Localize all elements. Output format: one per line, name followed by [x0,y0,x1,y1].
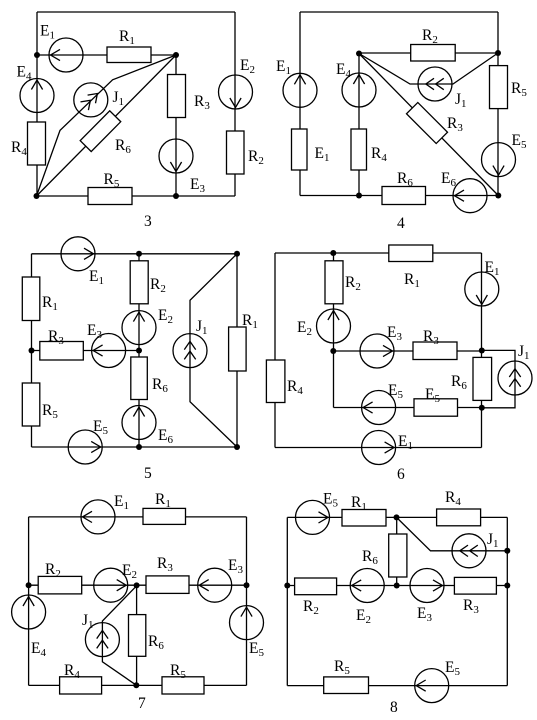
wire bottom c5 [32,446,238,448]
resistor R5 [490,66,508,109]
source E3 [198,568,232,602]
wire J1 loop c6 [482,350,516,407]
wire R6 branch c3 [37,55,177,196]
resistor R6 [131,357,148,400]
source E2 [94,568,128,602]
wire top c7 [29,516,247,518]
wire R6 column c8 [396,517,398,585]
wire R3 row c5 [32,350,140,352]
resistor R1 right [229,327,247,371]
wire right rail c4 [497,12,499,196]
wire bottom c7 [29,684,247,686]
wire left rail c8 [286,517,288,685]
wire right rail c7 [246,517,248,686]
wire J1 branch c3 [37,55,177,196]
resistor R5 [324,677,369,694]
source E3 [159,139,193,173]
wire R2 row c4 [359,52,498,54]
wire bottom c3 [37,195,236,197]
resistor R6 [382,187,426,205]
resistor R6 [129,615,146,657]
wire J1 branch c5 [190,254,237,447]
current source J1 [452,534,486,568]
source E5 [482,143,516,177]
node bottom-mid c3 [173,193,179,199]
source E1 [61,237,95,271]
current source J1 [85,623,119,657]
wire bottom c6 [275,447,482,449]
source E1 top [465,272,499,306]
wire J1 branch c7 [102,586,136,685]
svg-text:7: 7 [138,695,146,712]
wire left rail c7 [28,517,30,686]
node bottom-mid c4 [356,193,362,199]
resistor R4 [28,122,46,165]
wire left rail c5 [31,254,33,447]
node top-mid c5 [136,251,142,257]
wire top c4 [300,11,498,13]
resistor R3 [413,342,457,360]
source E5 [68,430,102,464]
wire E1-R1 row c3 [37,54,176,56]
wire J1 branch c8 [397,517,508,550]
wire right rail c8 [506,517,508,685]
wire R6 column c7 [136,585,138,685]
source E6 [453,179,487,213]
wire middle row c8 [287,585,507,587]
resistor R2 [38,576,81,594]
wire middle row c7 [29,584,247,586]
node mid c5 [136,348,142,354]
resistor R5 [22,383,40,426]
wire bottom c4 [300,195,498,197]
resistor R1 [342,510,386,527]
resistor R6 [80,111,121,152]
wire left rail c4 [299,12,301,196]
source E4 [12,595,46,629]
node right c8 [504,583,510,589]
source E5 bottom [415,669,449,703]
svg-text:8: 8 [390,699,398,716]
node bottom-right c5 [234,444,240,450]
node top-right c5 [234,251,240,257]
source E1 [49,38,83,72]
svg-text:6: 6 [397,466,405,483]
node right-mid c6 [479,348,485,354]
resistor R4 [266,360,285,403]
resistor R3 [454,577,496,594]
node mid-top c4 [356,51,362,57]
current source J1 [74,83,108,117]
current source J1 [418,67,452,101]
resistor R4 [351,129,367,170]
node bottom-mid c5 [136,444,142,450]
resistor E1 box [292,129,308,170]
resistor R2 [325,261,343,304]
wire middle column c5 [138,254,140,447]
wire top c5 [32,253,238,255]
source E3 [92,334,126,368]
current source J1 [173,334,207,368]
wire J1 branch c4 [359,53,498,84]
source E2 [350,569,384,603]
resistor R2 [227,131,245,174]
source E5 top [296,500,330,534]
wire left rail c6 [274,253,276,448]
svg-text:4: 4 [397,215,405,232]
wire right rail c3 [234,12,236,196]
wire middle column c6 [333,253,335,408]
wire top c8 [287,516,507,518]
node top c6 [330,250,336,256]
source E1 [283,73,317,107]
node left c8 [284,583,290,589]
resistor R5 [162,677,204,694]
resistor R3 [406,102,447,143]
source E3 [360,334,394,368]
wire top c3 [37,11,235,13]
wire right rail c5 [236,254,238,447]
resistor R3 [40,342,84,361]
node bottom c7 [133,682,139,688]
node mid c7 [134,582,140,588]
wire bottom c8 [287,685,507,687]
source E2 [317,309,351,343]
node bottom-left c3 [34,193,40,199]
source E5 [362,391,396,425]
resistor R4 [60,677,102,694]
node mid c6 [330,348,336,354]
wire left rail c3 [36,12,38,196]
resistor R6 [473,357,492,400]
wire R3 branch c4 [359,54,498,196]
node top-right c4 [495,50,501,56]
resistor R4 [437,509,481,526]
wire top c6 [275,252,482,254]
svg-text:5: 5 [144,465,152,482]
source E5 [230,606,264,640]
node right-low c6 [479,405,485,411]
resistor R1 left [22,277,40,321]
node top c8 [394,514,400,520]
resistor R2 [411,45,456,62]
node top-right c3 [173,52,179,58]
resistor R2 [295,578,337,595]
wire E5 row c6 [334,407,482,409]
resistor R1 [143,508,186,524]
node top-left c3 [34,52,40,58]
source E6 [122,406,156,440]
wire R3 column c3 [175,55,177,196]
wire right column c6 [481,253,483,448]
source E2 [219,75,253,109]
node mid c8 [394,583,400,589]
node bottom-right c4 [495,193,501,199]
resistor R3 [146,576,189,594]
node right c7 [244,582,250,588]
node J1 right c8 [504,548,510,554]
resistor R6 [389,534,407,577]
source E4 [342,73,376,107]
current source J1 [498,361,532,395]
resistor R1 [389,245,433,262]
source E2 [122,311,156,345]
source E4 [20,79,54,113]
node mid-left c5 [29,348,35,354]
wire E4 column c4 [358,54,360,196]
resistor R2 [130,261,148,304]
svg-text:3: 3 [144,213,152,230]
wire E3 row c6 [334,350,482,352]
source E1 bottom [362,431,396,465]
resistor R1 [107,47,151,63]
resistor R5 [88,188,132,205]
node left c7 [26,582,32,588]
resistor R3 [168,75,186,118]
resistor E5 box [414,399,458,416]
source E3 [410,569,444,603]
source E1 [81,500,115,534]
